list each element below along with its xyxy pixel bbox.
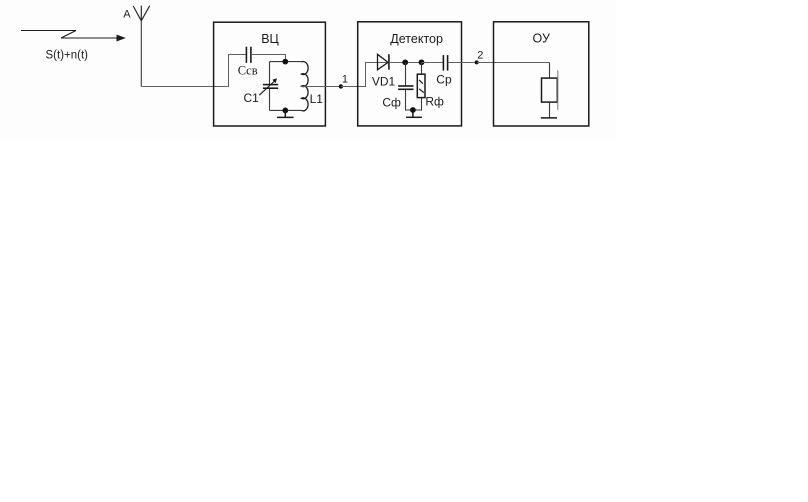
wire Csv to tank top (251, 55, 286, 62)
capacitor C1 variable (263, 85, 278, 89)
svg-text:ОУ: ОУ (533, 31, 550, 45)
capacitor Cf (398, 86, 413, 89)
svg-text:L1: L1 (310, 92, 324, 106)
block OU box (494, 22, 589, 126)
svg-text:2: 2 (477, 49, 483, 61)
block VC box (214, 22, 326, 126)
wire tank bottom (270, 109, 302, 111)
node junction Rf (419, 59, 425, 65)
node junction Cf (402, 59, 408, 65)
wire L1 tap to node 1 (301, 86, 341, 88)
capacitor Csv (246, 47, 251, 63)
block Detector box (358, 22, 462, 126)
signal arrow S(t)+n(t) (21, 31, 126, 42)
wire side line of load (557, 70, 559, 109)
resistor load (542, 78, 558, 102)
node detector bottom junction (410, 107, 416, 113)
inductor L1 (301, 62, 308, 111)
wire tank top (270, 61, 302, 63)
antenna A (133, 6, 150, 21)
wire down to Cf (405, 63, 407, 86)
wire input riser (229, 55, 246, 87)
wire junction to Cp (422, 62, 443, 64)
wire Rf to bottom node (413, 98, 422, 110)
wire Cf to bottom node (406, 89, 413, 110)
wire C1 branch (269, 62, 271, 111)
node tank bottom junction (282, 108, 288, 114)
diode VD1 (378, 54, 389, 70)
svg-text:VD1: VD1 (372, 74, 396, 88)
svg-text:S(t)+n(t): S(t)+n(t) (46, 49, 89, 61)
svg-text:Ссв: Ссв (238, 64, 258, 78)
wire load to ground (549, 102, 551, 118)
svg-text:C1: C1 (244, 91, 260, 105)
node 1 (339, 84, 343, 88)
node tank top junction (282, 59, 288, 65)
ground OU (541, 117, 557, 119)
svg-text:ВЦ: ВЦ (261, 32, 279, 46)
wire antenna mast (140, 21, 142, 87)
wire Cp to node 2 (448, 62, 477, 64)
wire node 1 to detector (341, 63, 389, 87)
wire diode to junction (389, 62, 422, 64)
resistor Rf (417, 74, 425, 97)
svg-text:1: 1 (342, 73, 348, 85)
ground VC box (277, 110, 294, 117)
wire down to Rf (421, 63, 423, 75)
wire node 2 into OU box (477, 62, 550, 64)
ground detector (406, 110, 422, 117)
svg-text:Rф: Rф (425, 94, 444, 108)
wire down to load resistor (549, 63, 551, 79)
svg-text:Ср: Ср (436, 73, 452, 87)
svg-text:A: A (123, 8, 131, 20)
arrow of variable capacitor C1 (259, 81, 275, 96)
svg-text:Детектор: Детектор (390, 32, 443, 46)
svg-text:Сф: Сф (382, 96, 401, 110)
capacitor Cp (443, 55, 447, 71)
node 2 (475, 60, 479, 64)
wire antenna to VC box (141, 86, 229, 88)
